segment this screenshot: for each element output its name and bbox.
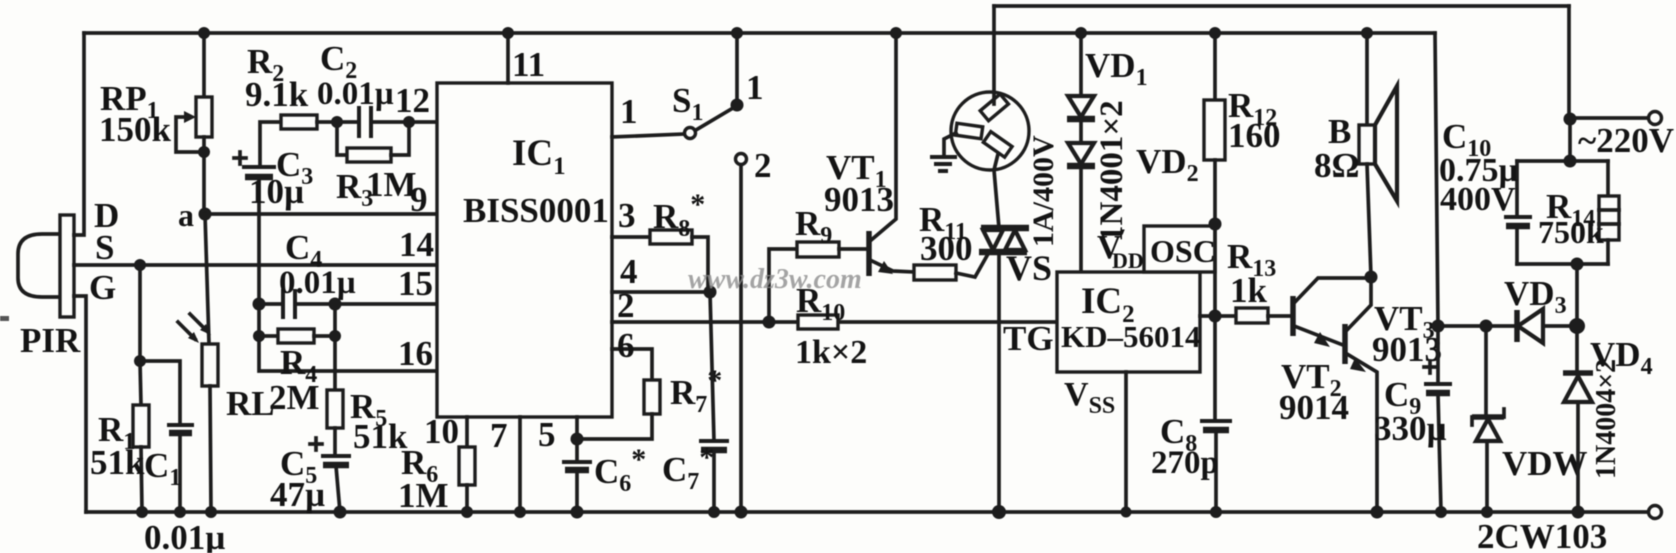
wire: upper mains line xyxy=(994,4,1569,8)
resistor R9 xyxy=(797,242,839,257)
wire: pin 5 stub down xyxy=(575,417,579,462)
svg-text:1: 1 xyxy=(746,68,764,107)
node: S junction xyxy=(134,259,146,271)
switch contact 2 xyxy=(736,154,747,513)
svg-text:9013: 9013 xyxy=(824,180,894,219)
wire: socket bottom lead to triac xyxy=(994,154,999,228)
svg-text:51k: 51k xyxy=(90,443,145,482)
resistor R5 xyxy=(327,390,343,456)
svg-text:KD–56014: KD–56014 xyxy=(1061,319,1201,354)
wire: block bottom side xyxy=(1517,262,1608,266)
wire: PIR G pin down to ground rail xyxy=(74,296,86,512)
speaker B xyxy=(1359,33,1397,277)
svg-text:10: 10 xyxy=(424,412,459,451)
svg-text:DD: DD xyxy=(1112,248,1144,273)
node: top rail / RP1 xyxy=(198,27,210,39)
svg-text:1N4004×2: 1N4004×2 xyxy=(1591,359,1622,479)
wire: pin 3 xyxy=(612,235,650,239)
svg-text:PIR: PIR xyxy=(20,321,81,360)
capacitor C6 xyxy=(562,462,592,512)
diode VD1 xyxy=(1067,33,1095,143)
svg-text:G: G xyxy=(89,268,116,307)
svg-text:51k: 51k xyxy=(353,417,408,456)
svg-text:2CW103: 2CW103 xyxy=(1477,517,1607,553)
wire: IC2 output to R13 xyxy=(1200,314,1236,318)
potentiometer RP1 xyxy=(176,33,212,214)
ground rail junction dots xyxy=(136,506,148,518)
node: VT1 collector on top rail xyxy=(890,27,902,39)
wire: R2 to C2 xyxy=(317,120,358,124)
wire: PIR D pin to top rail xyxy=(74,33,84,235)
svg-text:400V: 400V xyxy=(1440,181,1516,218)
node: R12 on top rail xyxy=(1209,27,1221,39)
resistor R10 xyxy=(798,315,838,329)
svg-text:330µ: 330µ xyxy=(1374,409,1447,448)
capacitor C10 / resistor R14 dropper block xyxy=(1564,6,1662,161)
zener VDW xyxy=(1472,326,1504,512)
svg-text:a: a xyxy=(178,197,194,233)
wire: bottom ground rail xyxy=(86,510,1648,514)
svg-text:9: 9 xyxy=(410,180,428,219)
resistor R1 xyxy=(133,361,149,512)
node: speaker on top rail xyxy=(1361,27,1373,39)
ground xyxy=(930,157,957,171)
triac VS xyxy=(979,228,1029,512)
node: R1/C1 xyxy=(134,355,146,367)
node: R2/C2/R3 left xyxy=(331,116,343,128)
svg-text:TG: TG xyxy=(1003,319,1054,358)
transistor VT3 xyxy=(1345,278,1377,512)
svg-text:0.01µ: 0.01µ xyxy=(279,265,356,301)
svg-text:2M: 2M xyxy=(269,378,320,417)
wire: block bottom to VD3 node xyxy=(1575,264,1579,326)
capacitor C4 xyxy=(259,289,335,319)
resistor R11 xyxy=(914,254,988,280)
wire: top supply rail xyxy=(84,31,1435,35)
wire: pin 4 xyxy=(612,290,712,294)
svg-text:9014: 9014 xyxy=(1279,388,1349,427)
IC U2: KD-56014 box xyxy=(1057,272,1200,372)
svg-text:5: 5 xyxy=(538,415,556,454)
resistor R4 xyxy=(259,329,335,343)
resistor R3 loop xyxy=(337,122,409,162)
OSC box xyxy=(1144,226,1215,272)
resistor R14 xyxy=(1599,161,1619,264)
node: pin4 / R8 / C7 xyxy=(704,286,717,299)
svg-text:10µ: 10µ xyxy=(249,172,304,211)
capacitor C1 xyxy=(140,361,194,512)
node: IC2 out / R13 xyxy=(1209,310,1222,323)
node a xyxy=(199,208,212,221)
wire: node a to IC1 pin 9 xyxy=(205,212,437,216)
wire: pin 12 net corner xyxy=(260,122,281,167)
resistor R13 xyxy=(1236,308,1291,323)
node: pin5 / R7 xyxy=(571,433,584,446)
svg-text:′: ′ xyxy=(1120,224,1126,249)
node: block bottom xyxy=(1571,258,1584,271)
svg-text:1M: 1M xyxy=(398,476,449,515)
svg-text:16: 16 xyxy=(398,334,433,373)
svg-text:6: 6 xyxy=(617,326,635,365)
node: VD3 / VD4 / R14 xyxy=(1569,318,1585,334)
resistor R6 xyxy=(459,447,475,512)
svg-text:12: 12 xyxy=(395,81,430,120)
wire: pin 7 stub to ground xyxy=(518,417,522,512)
node: C3/C4 left xyxy=(253,298,266,311)
svg-text:1A/400V: 1A/400V xyxy=(1027,135,1060,247)
switch S1 xyxy=(685,33,744,139)
node: pin2 / R9 riser xyxy=(763,316,776,329)
svg-text:270p: 270p xyxy=(1151,445,1219,481)
PIR sensor xyxy=(18,215,74,317)
lamp socket xyxy=(944,92,1029,170)
transistor VT1 xyxy=(839,33,914,276)
capacitor C9 xyxy=(1424,33,1452,512)
wire: pin 1 to switch xyxy=(612,134,684,137)
svg-text:14: 14 xyxy=(399,225,434,264)
capacitor C8 xyxy=(1200,421,1232,512)
svg-text:47µ: 47µ xyxy=(270,475,325,514)
transistor VT2 xyxy=(1293,278,1369,347)
svg-text:300: 300 xyxy=(920,229,973,268)
wire: S junction down to R1/C1 node xyxy=(138,265,142,361)
svg-text:8Ω: 8Ω xyxy=(1314,146,1360,185)
wire: pin 11 stub xyxy=(506,33,510,83)
svg-text:0.01µ: 0.01µ xyxy=(144,518,225,553)
node: OSC / R12 xyxy=(1209,218,1222,231)
svg-text:2: 2 xyxy=(754,146,772,185)
resistor R2 xyxy=(281,115,317,129)
svg-text:1M: 1M xyxy=(366,165,417,204)
svg-text:RL: RL xyxy=(226,384,275,423)
svg-text:BISS0001: BISS0001 xyxy=(463,191,609,230)
svg-text:11: 11 xyxy=(512,45,545,84)
resistor R12 xyxy=(1204,33,1225,421)
node: C4 right on pin15 wire xyxy=(329,298,342,311)
node: S1 on top rail xyxy=(731,27,743,39)
wire: VSS stub xyxy=(1124,372,1128,512)
wire: socket top lead to mains line xyxy=(992,6,996,104)
wire: pin 15 xyxy=(335,302,437,306)
wire: block top side xyxy=(1517,159,1608,163)
svg-text:1k×2: 1k×2 xyxy=(795,334,867,371)
svg-text:150k: 150k xyxy=(99,110,172,149)
svg-text:15: 15 xyxy=(398,264,433,303)
wire: node a down to photoresistor RL xyxy=(205,214,209,344)
node: VD1 on top rail xyxy=(1075,27,1087,39)
node: collectors / speaker xyxy=(1365,271,1378,284)
capacitor C3 xyxy=(234,152,276,304)
capacitor C10 xyxy=(1504,161,1532,264)
svg-text:0.01µ: 0.01µ xyxy=(317,76,394,112)
svg-text:OSC: OSC xyxy=(1150,233,1216,269)
terminal: mains bottom xyxy=(1649,506,1662,519)
svg-text:750k: 750k xyxy=(1538,214,1604,250)
node: pin11 on top rail xyxy=(502,27,514,39)
resistor R8 xyxy=(650,230,708,292)
wire: riser to R9 xyxy=(769,249,797,322)
node: C2 right / R3 right xyxy=(403,116,415,128)
capacitor C2 xyxy=(359,106,437,138)
diode VD2 xyxy=(1067,143,1095,272)
svg-text:S: S xyxy=(95,228,114,267)
wire: pin 2 / TG line xyxy=(612,320,1057,324)
capacitor C7 xyxy=(699,292,729,512)
svg-text:2: 2 xyxy=(617,286,635,325)
wire: C9 node to VD3 xyxy=(1438,324,1516,328)
node: R4 left xyxy=(253,330,265,342)
svg-text:VS: VS xyxy=(1006,248,1052,288)
svg-text:1: 1 xyxy=(620,92,638,131)
wire: S rail from PIR to IC1 pin 14 xyxy=(74,263,437,267)
capacitor C5 xyxy=(310,438,351,512)
svg-text:~220V: ~220V xyxy=(1578,121,1674,160)
diode VD3 xyxy=(1517,309,1577,343)
svg-text:9.1k: 9.1k xyxy=(245,75,309,114)
photoresistor RL xyxy=(178,314,218,512)
svg-text:160: 160 xyxy=(1228,116,1281,155)
svg-text:www.dz3w.com: www.dz3w.com xyxy=(688,264,862,295)
node: block top xyxy=(1564,155,1577,168)
wire: pin 10 stub xyxy=(465,417,469,447)
wire: pin15 node down through R5 xyxy=(333,304,337,390)
node: R4 right xyxy=(329,330,341,342)
op-amp IC U1: BISS0001 box xyxy=(437,83,612,417)
svg-text:1k: 1k xyxy=(1230,271,1268,310)
svg-text:7: 7 xyxy=(490,416,508,455)
svg-text:3: 3 xyxy=(618,196,636,235)
svg-text:VDW: VDW xyxy=(1502,444,1588,483)
resistor R7 xyxy=(577,349,660,439)
node: VDW tap xyxy=(1480,320,1493,333)
node: C9 top xyxy=(1432,320,1445,333)
diode VD4 xyxy=(1563,326,1593,512)
svg-text:1N4001×2: 1N4001×2 xyxy=(1094,100,1130,242)
wire: left node down + pin16 wire xyxy=(259,304,437,371)
